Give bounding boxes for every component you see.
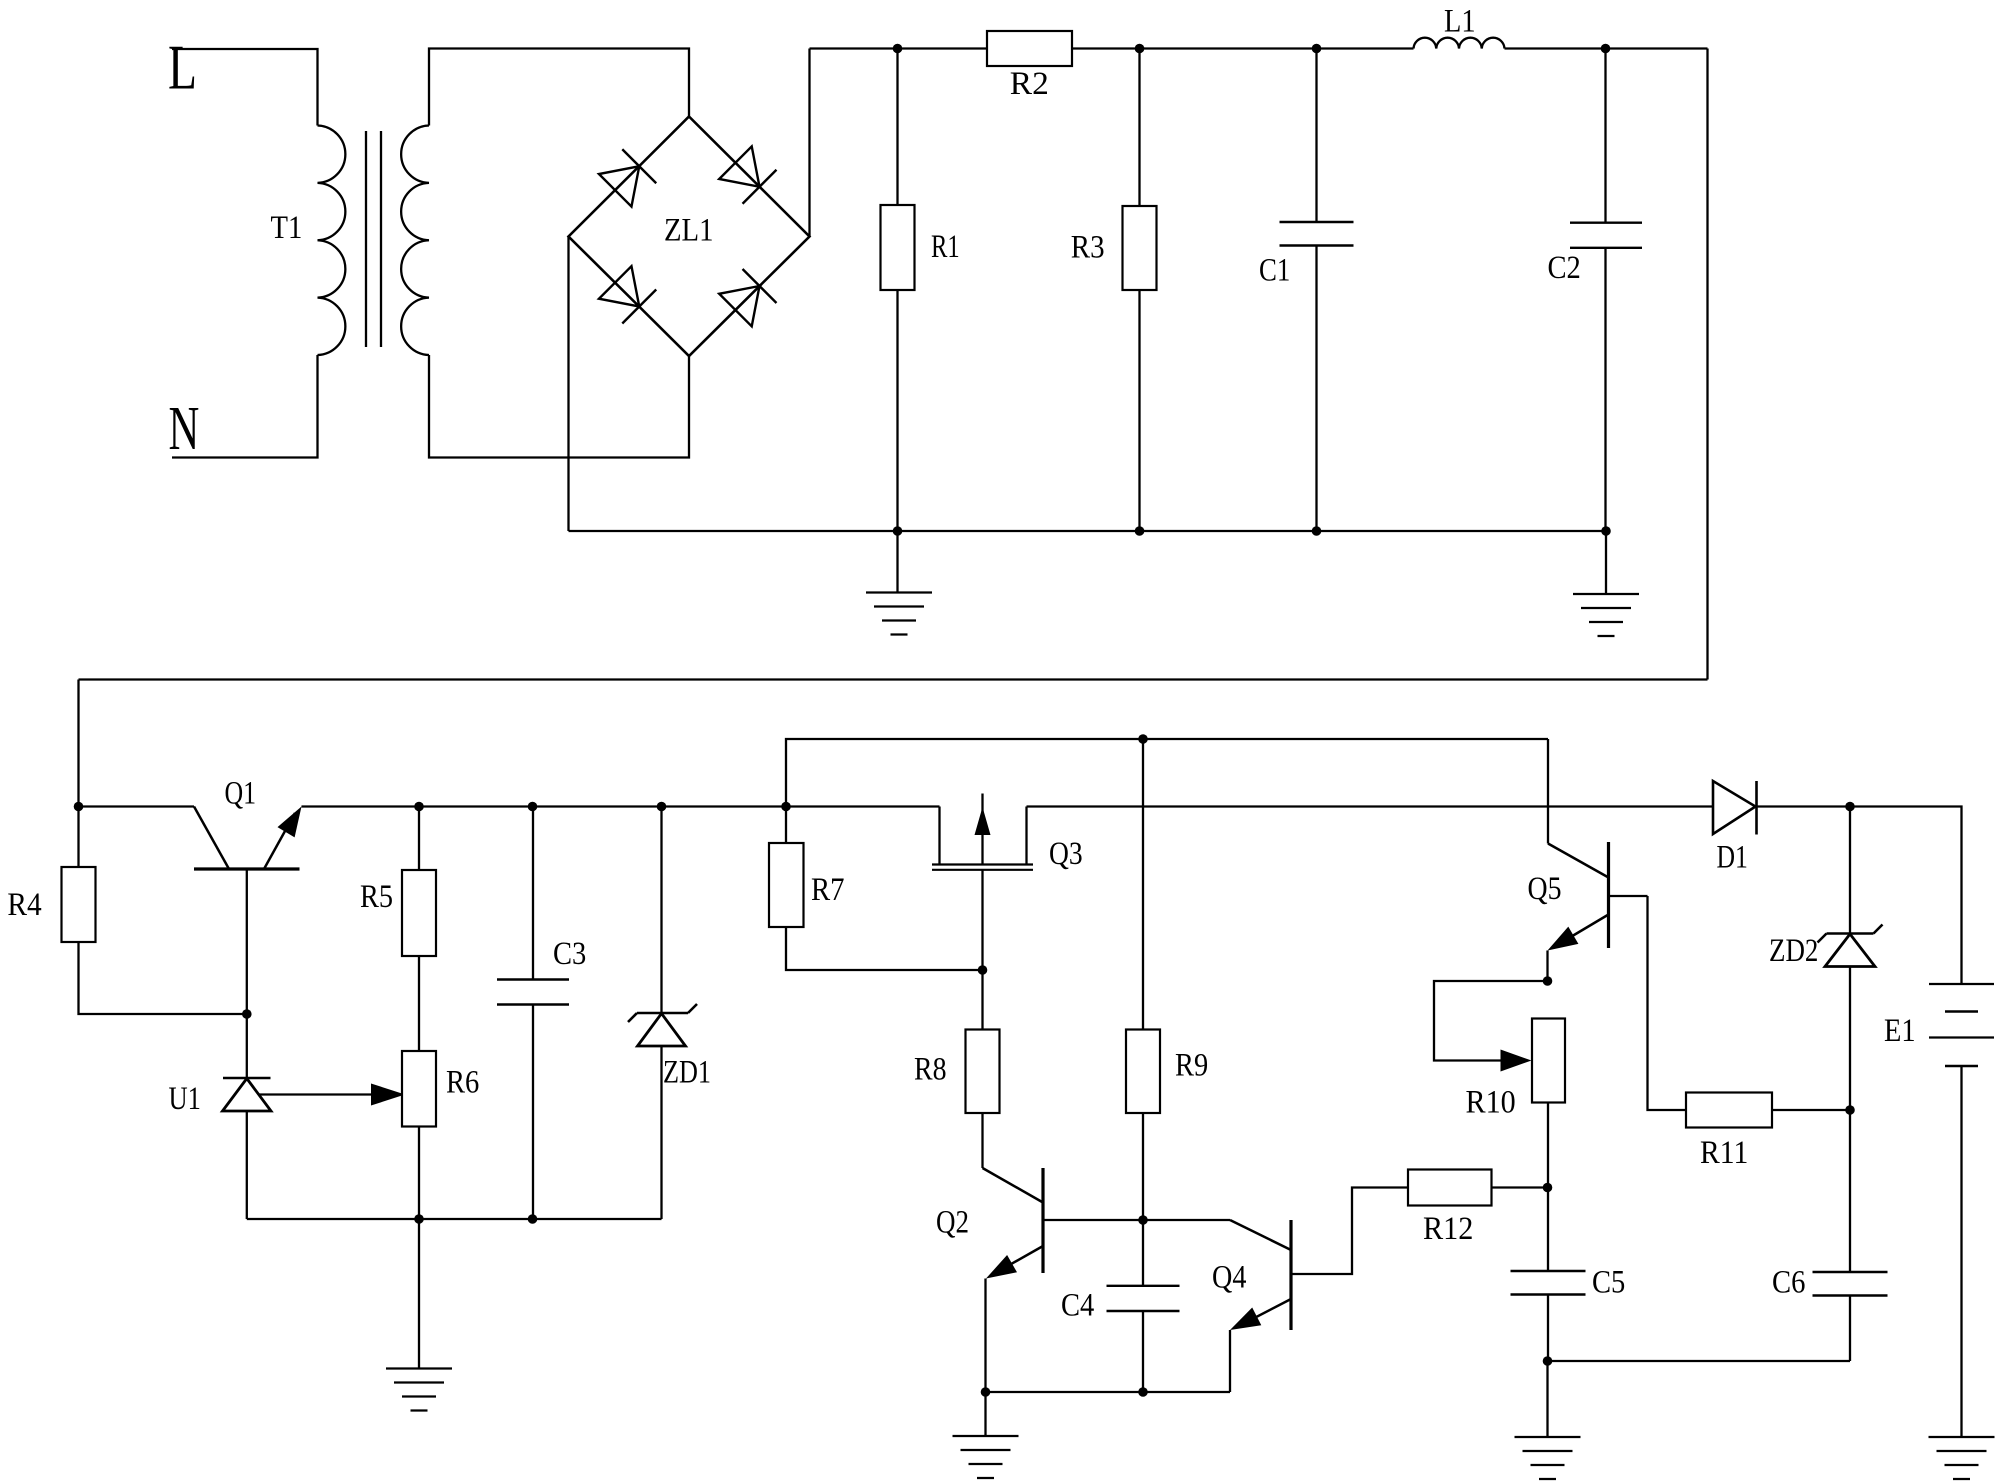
- node C3 bottom: [528, 1214, 538, 1224]
- svg-text:L: L: [168, 32, 197, 103]
- capacitor C5: [1511, 1265, 1626, 1362]
- svg-text:R9: R9: [1175, 1048, 1208, 1084]
- svg-text:R3: R3: [1071, 230, 1105, 266]
- capacitor C2: [1548, 49, 1643, 532]
- svg-text:C1: C1: [1259, 253, 1290, 289]
- wire left drop to lower rail: [77, 680, 79, 807]
- node ZD1 top: [657, 802, 667, 812]
- svg-text:R1: R1: [931, 229, 960, 265]
- wire Q5 base to R11: [1648, 896, 1687, 1110]
- node L terminal label: [168, 32, 197, 103]
- svg-text:C4: C4: [1061, 1288, 1094, 1324]
- capacitor C1: [1259, 49, 1354, 532]
- svg-text:R5: R5: [360, 879, 393, 915]
- ground under C2: [1573, 531, 1639, 636]
- wire top rail: [810, 47, 1708, 49]
- node C3 top: [528, 802, 538, 812]
- svg-text:U1: U1: [169, 1081, 201, 1117]
- ground under R6: [386, 1219, 452, 1411]
- MOSFET Q3: [932, 794, 1083, 1030]
- wire right side drop: [1706, 49, 1708, 680]
- svg-text:Q1: Q1: [225, 776, 257, 812]
- diode D1: [1713, 781, 1757, 876]
- node R7 top: [781, 802, 791, 812]
- svg-text:R7: R7: [811, 872, 845, 908]
- node R5 top: [414, 802, 424, 812]
- transistor Q5: [1528, 739, 1648, 981]
- ground under Q2: [953, 1392, 1019, 1478]
- node lower rail left: [74, 802, 84, 812]
- svg-text:L1: L1: [1444, 4, 1476, 40]
- resistor R1: [881, 49, 960, 532]
- svg-text:T1: T1: [271, 210, 303, 246]
- transistor Q1: [194, 776, 302, 1015]
- wire L input: [172, 49, 318, 126]
- node N terminal label: [169, 395, 200, 463]
- wire lower-left bottom wire: [247, 1218, 662, 1220]
- node C1 bottom: [1312, 526, 1322, 536]
- resistor R11: [1686, 1093, 1850, 1172]
- wire secondary bottom to bridge: [429, 355, 689, 458]
- node Q5 emitter / R10 wiper: [1543, 976, 1553, 986]
- resistor R3: [1071, 49, 1157, 532]
- zener diode ZD2: [1769, 807, 1883, 1111]
- node C5 bottom: [1543, 1356, 1553, 1366]
- resistor R5: [360, 807, 436, 1051]
- svg-text:R4: R4: [7, 887, 41, 923]
- wire C5 to C6 bottom: [1548, 1360, 1851, 1362]
- svg-text:ZL1: ZL1: [664, 212, 714, 248]
- node R1 bottom: [893, 526, 903, 536]
- inductor L1: [1414, 4, 1505, 49]
- transistor Q4: [1212, 1188, 1408, 1393]
- node D1 cathode / ZD2: [1845, 802, 1855, 812]
- node R3 bottom: [1135, 526, 1145, 536]
- resistor R8: [914, 1030, 1000, 1169]
- resistor R9: [1126, 739, 1208, 1220]
- wire N input: [172, 355, 318, 458]
- wire ground bus: [569, 530, 1607, 532]
- node C1 top: [1312, 44, 1322, 54]
- capacitor C6: [1772, 1110, 1888, 1361]
- resistor R4: [7, 807, 246, 1015]
- svg-text:R6: R6: [446, 1065, 479, 1101]
- node C2 bottom: [1601, 526, 1611, 536]
- potentiometer R10: [1434, 981, 1565, 1271]
- node R1 top: [893, 44, 903, 54]
- node Q2 base / R9 / C4: [1138, 1215, 1148, 1225]
- svg-text:C5: C5: [1592, 1265, 1625, 1301]
- node R12 right: [1543, 1183, 1553, 1193]
- resistor R7: [769, 807, 983, 971]
- svg-text:Q2: Q2: [936, 1205, 969, 1241]
- node C4 bottom: [1138, 1387, 1148, 1397]
- wire secondary top to bridge: [429, 49, 689, 126]
- node R6 bottom: [414, 1214, 424, 1224]
- svg-text:Q5: Q5: [1528, 871, 1562, 907]
- battery E1: [1884, 984, 1994, 1437]
- node R9 bus tap: [1138, 734, 1148, 744]
- ground under E1: [1929, 1437, 1995, 1479]
- svg-text:ZD1: ZD1: [663, 1055, 711, 1091]
- node R3 top: [1135, 44, 1145, 54]
- resistor R12: [1408, 1170, 1548, 1248]
- node C2 top: [1601, 44, 1611, 54]
- wire bridge right vertex up to top rail: [808, 49, 810, 237]
- svg-text:Q3: Q3: [1049, 836, 1083, 872]
- svg-text:E1: E1: [1884, 1013, 1916, 1049]
- svg-text:R2: R2: [1010, 66, 1049, 102]
- adjustable reference U1: [169, 1014, 406, 1219]
- capacitor C4: [1061, 1220, 1180, 1392]
- potentiometer R6: [402, 1051, 479, 1219]
- svg-text:R12: R12: [1423, 1211, 1473, 1247]
- svg-text:R11: R11: [1700, 1135, 1748, 1171]
- wire wrap-around to lower circuit: [79, 678, 1708, 680]
- wire lower rail: [79, 807, 1962, 985]
- ground under C5: [1515, 1361, 1581, 1479]
- svg-text:D1: D1: [1717, 840, 1748, 876]
- transistor Q2: [936, 1168, 1230, 1392]
- wire bottom emitter wire: [986, 1391, 1231, 1393]
- node Q1 base / R4 / U1: [242, 1009, 252, 1019]
- transformer T1: [271, 126, 430, 356]
- svg-text:R10: R10: [1466, 1085, 1516, 1121]
- svg-text:C6: C6: [1772, 1265, 1805, 1301]
- bridge rectifier ZL1: [569, 117, 810, 357]
- node Q2 emitter bottom: [981, 1387, 991, 1397]
- node ZD2 anode / R11 / C6: [1845, 1105, 1855, 1115]
- wire gate bus: [786, 739, 1548, 807]
- resistor R2: [987, 31, 1072, 102]
- ground under R1: [866, 531, 932, 635]
- svg-text:R8: R8: [914, 1052, 947, 1088]
- node R7 bottom / Q3 gate: [978, 965, 988, 975]
- svg-text:C2: C2: [1548, 250, 1581, 286]
- svg-text:N: N: [169, 395, 200, 463]
- svg-text:ZD2: ZD2: [1769, 933, 1818, 969]
- capacitor C3: [497, 807, 586, 1220]
- zener diode ZD1: [628, 807, 711, 1220]
- svg-text:C3: C3: [553, 936, 586, 972]
- wire bridge left vertex down to ground bus: [567, 237, 569, 532]
- svg-text:Q4: Q4: [1212, 1260, 1246, 1296]
